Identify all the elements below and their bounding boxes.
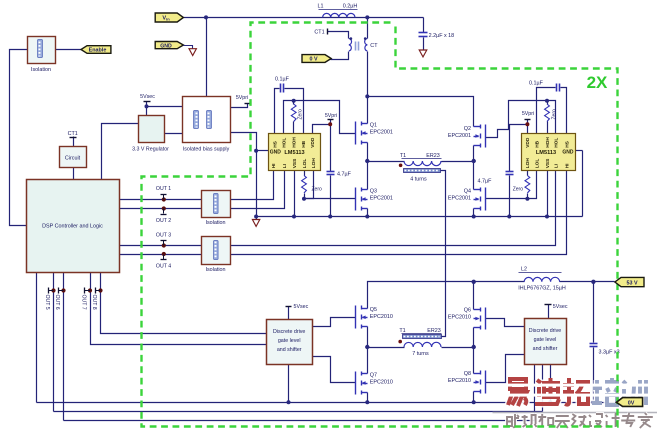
wire Q6 gate route <box>486 319 525 327</box>
svg-text:EPC2001: EPC2001 <box>370 196 393 202</box>
wire right HI to isolation3 bus <box>231 171 567 255</box>
svg-text:Isolated bias supply: Isolated bias supply <box>183 146 230 152</box>
wire shifter1 gnd pin <box>288 365 290 403</box>
wire bias supply top input <box>206 18 208 97</box>
wire Q5 source to T1 secondary <box>367 327 369 348</box>
svg-text:Q7: Q7 <box>370 373 377 379</box>
svg-text:Vin: Vin <box>162 16 170 22</box>
wire left VSS to bus <box>294 171 296 217</box>
svg-text:CT1: CT1 <box>68 131 78 137</box>
svg-text:Q4: Q4 <box>464 189 471 195</box>
svg-text:EPC2010: EPC2010 <box>448 378 471 384</box>
block DSP controller <box>27 180 120 273</box>
ground symbol at GND pointer <box>184 46 193 49</box>
wire 2.2uF cap stem <box>423 18 425 33</box>
wire left LI to isolation2 <box>231 171 285 209</box>
isolation block 3 <box>202 237 231 273</box>
resistor Zero left-bottom <box>302 176 322 194</box>
pointer GND <box>155 42 183 50</box>
ground under 2.2uF <box>419 50 427 57</box>
wire CT left winding to 0V <box>331 52 349 60</box>
svg-text:4.7µF: 4.7µF <box>337 172 352 178</box>
transistor Q3 <box>356 188 368 211</box>
svg-text:gate level: gate level <box>534 337 557 343</box>
svg-text:GND: GND <box>270 149 282 155</box>
watermark line <box>493 412 657 414</box>
pointer Vin <box>155 13 183 22</box>
wire DSP to 3.3V regulator <box>102 124 139 180</box>
terminal 5Vpri right chip <box>522 111 534 126</box>
node OUT4 <box>156 252 171 269</box>
transformer CT1 current transformer <box>349 39 367 52</box>
svg-text:GND: GND <box>562 149 574 155</box>
wire Q4 drain/source <box>473 162 475 190</box>
wire left HOL up <box>284 101 294 134</box>
watermark row2 vector glyphs <box>507 413 653 428</box>
capacitor 4.7uF right <box>478 172 514 185</box>
terminal 5Vsec shifter2 <box>545 304 568 310</box>
node OUT2 <box>156 206 171 223</box>
wire Q8 drain <box>473 348 475 374</box>
block discrete drive gate level shifter 1 <box>267 320 313 365</box>
wire T1 secondary line <box>368 347 405 349</box>
svg-text:LOL: LOL <box>302 159 308 169</box>
wire right LI to isolation3 bus <box>231 171 556 246</box>
inductor L1 <box>323 13 355 17</box>
svg-text:EPC2010: EPC2010 <box>370 380 393 386</box>
svg-text:OUT 3: OUT 3 <box>156 232 171 238</box>
node OUT8 <box>91 288 102 310</box>
capacitor 4.7uF left <box>327 172 352 178</box>
svg-text:VSS: VSS <box>292 158 298 168</box>
svg-text:Zero: Zero <box>552 109 558 120</box>
pointer Enable <box>81 46 111 54</box>
capacitor 0.1uF right <box>529 81 559 92</box>
svg-text:0.1µF: 0.1µF <box>275 77 290 83</box>
op-amp U2 gate driver LM5113 right <box>522 134 576 171</box>
svg-text:VSS: VSS <box>545 158 551 168</box>
wire right VDD to 5Vpri <box>527 125 529 134</box>
svg-text:Q5: Q5 <box>370 307 377 313</box>
wire left 0.1uF bootstrap HS-HB <box>275 89 280 134</box>
wire bias gnd output to chip GND <box>231 133 257 151</box>
svg-text:and shifter: and shifter <box>533 346 558 352</box>
wire 3.3uF branch <box>593 282 595 343</box>
terminal 5Vsec left <box>140 94 155 101</box>
wire OUT4 <box>120 254 202 256</box>
transformer T1 primary 4 turns ER23 <box>404 161 441 166</box>
svg-text:Isolation: Isolation <box>205 267 225 273</box>
svg-text:OUT 6: OUT 6 <box>54 295 60 310</box>
wire right HOL up <box>548 101 556 134</box>
svg-text:HI: HI <box>564 163 570 168</box>
svg-text:0V: 0V <box>628 401 635 407</box>
svg-text:VDD: VDD <box>310 137 316 148</box>
transistor Q6 <box>474 308 486 330</box>
green dashed boundary 2X region <box>142 23 618 427</box>
node OUT1 <box>156 186 171 202</box>
svg-text:Zero: Zero <box>298 109 304 120</box>
svg-text:OUT 1: OUT 1 <box>156 186 171 192</box>
svg-text:EPC2001: EPC2001 <box>370 130 393 136</box>
node OUT7 <box>81 288 92 310</box>
svg-text:EPC2010: EPC2010 <box>448 315 471 321</box>
capacitor 3.3uF x3 <box>590 344 620 356</box>
wire shifter2 5Vsec stem <box>548 305 550 319</box>
inductor L2 IHLP6767GZ <box>524 277 559 282</box>
svg-text:LM5113: LM5113 <box>284 150 304 156</box>
wire shifter1 5Vsec stem <box>288 307 290 320</box>
wire OUT5 down <box>53 273 55 412</box>
svg-text:4.7µF: 4.7µF <box>478 179 493 185</box>
svg-text:2X: 2X <box>587 73 608 92</box>
wire left LOL resistor stems <box>304 171 306 176</box>
svg-text:0.2µH: 0.2µH <box>343 4 358 10</box>
svg-text:5Vpri: 5Vpri <box>325 113 337 119</box>
svg-text:HOH: HOH <box>545 137 551 148</box>
wire DSP aux bottom pin to bus1 <box>36 273 38 403</box>
wire left HI to isolation2 <box>231 171 274 200</box>
wire bias 5Vpri output terminal <box>231 104 248 108</box>
wire right LOH resistor stems <box>527 171 529 176</box>
wire left VDD to 5Vpri <box>313 125 331 134</box>
svg-text:Q2: Q2 <box>464 126 471 132</box>
isolation block 1 <box>28 37 56 74</box>
svg-text:HOL: HOL <box>553 138 559 148</box>
wire Q8 source to bus1 <box>473 392 475 403</box>
wire T1 link winding down <box>441 171 446 337</box>
transistor Q2 <box>474 125 486 148</box>
svg-text:Isolation: Isolation <box>205 220 225 226</box>
svg-text:Discrete drive: Discrete drive <box>273 329 305 335</box>
svg-text:Discrete drive: Discrete drive <box>529 328 561 334</box>
svg-text:EPC2001: EPC2001 <box>448 133 471 139</box>
svg-text:Q6: Q6 <box>464 308 471 314</box>
block isolated bias supply <box>183 97 231 153</box>
wire bottom bus2 <box>54 411 543 413</box>
wire Vin rail <box>184 17 424 19</box>
wire left 5Vpri rail down with 4.7uF <box>330 125 332 172</box>
svg-text:Q3: Q3 <box>370 189 377 195</box>
svg-text:OUT 8: OUT 8 <box>91 295 97 310</box>
wire 3.3V reg to bias supply <box>165 133 183 135</box>
resistor Zero left-top <box>291 104 303 122</box>
svg-text:DSP Controller and Logic: DSP Controller and Logic <box>42 224 103 230</box>
wire right 0.1uF bootstrap HB-HS <box>537 88 556 134</box>
svg-text:3.3 V Regulator: 3.3 V Regulator <box>132 146 169 152</box>
terminal 5Vsec shifter1 <box>286 304 309 310</box>
wire left LOH join <box>305 171 314 199</box>
ground under bias GND rail <box>252 220 259 227</box>
transistor Q8 <box>474 371 486 394</box>
svg-text:4 turns: 4 turns <box>410 177 427 183</box>
transistor Q5 <box>356 306 368 329</box>
wire shifter1 out to Q7 gate <box>313 357 356 383</box>
wire left low gate drive to Q3 <box>305 198 356 200</box>
wire isolation1 to Enable <box>56 49 82 51</box>
svg-text:5Vsec: 5Vsec <box>140 94 155 100</box>
block discrete drive gate level shifter 2 <box>525 319 567 365</box>
wire Q1 drain from Vin <box>367 18 369 39</box>
transistor Q4 <box>474 188 486 211</box>
wire Q7 source to bus1 <box>367 393 369 403</box>
wire OUT2 <box>120 208 202 210</box>
op-amp U1 gate driver LM5113 left <box>269 134 321 171</box>
pointer 0V top <box>302 55 331 63</box>
svg-text:HI: HI <box>271 163 277 168</box>
svg-text:L1: L1 <box>318 4 324 10</box>
block CT1 circuit <box>60 131 87 168</box>
wire isolation1 left to DSP <box>10 50 28 226</box>
resistor Zero right-top <box>545 104 558 122</box>
svg-text:5Vpri: 5Vpri <box>236 95 248 101</box>
watermark row1 vector glyphs <box>508 378 646 406</box>
wire Q3 source to bus <box>367 209 369 217</box>
svg-text:0.1µF: 0.1µF <box>529 81 544 87</box>
svg-text:53 V: 53 V <box>626 280 637 286</box>
svg-text:Zero: Zero <box>513 187 524 193</box>
svg-text:LOH: LOH <box>525 158 531 169</box>
wire OUT3 <box>120 245 202 247</box>
wire OUT6 down <box>63 273 65 421</box>
wire Q6 drain up to L2 rail <box>473 282 475 310</box>
svg-text:Isolation: Isolation <box>31 67 51 73</box>
svg-text:Q8: Q8 <box>464 371 471 377</box>
wire shifter2 bottom pin to bus3 <box>534 365 536 421</box>
terminal 5Vpri bias output <box>236 95 252 104</box>
terminal 5Vpri left chip <box>325 113 337 126</box>
wire right low gate drive to Q4 <box>486 198 528 200</box>
svg-text:7 turns: 7 turns <box>412 351 429 357</box>
svg-text:and shifter: and shifter <box>277 347 302 353</box>
isolation block 2 <box>202 191 231 227</box>
svg-text:L2: L2 <box>521 267 527 273</box>
node OUT5 <box>44 288 55 310</box>
svg-text:5Vsec: 5Vsec <box>553 304 568 310</box>
svg-text:OUT 2: OUT 2 <box>156 218 171 224</box>
pointer 0V bottom <box>616 398 642 407</box>
wire 5Vsec node to bias supply <box>146 102 148 116</box>
svg-text:VDD: VDD <box>525 137 531 148</box>
wire Q2 source to node <box>473 146 475 162</box>
svg-text:HOH: HOH <box>292 137 298 148</box>
svg-text:EPC2010: EPC2010 <box>370 314 393 320</box>
wire shifter1 out to Q5 gate <box>313 318 356 327</box>
wire Q5 drain up to L2 rail <box>368 282 474 309</box>
capacitor 2.2uF x 18 <box>419 33 428 37</box>
wire left gate drive to Q1 <box>294 101 356 134</box>
svg-text:gate level: gate level <box>278 338 301 344</box>
wire right LOL join <box>528 171 537 199</box>
wire CT1 terminal to left winding <box>328 32 349 39</box>
node OUT6 <box>54 288 65 310</box>
wire T1 primary line <box>368 161 405 163</box>
wire shifter2 bottom pin to bus2 <box>542 365 544 412</box>
svg-text:HB: HB <box>301 140 307 147</box>
svg-text:HS: HS <box>564 140 570 147</box>
svg-text:HB: HB <box>534 140 540 147</box>
wire Q7 drain <box>367 348 369 374</box>
svg-text:CT: CT <box>370 43 378 49</box>
transformer T1 secondary 7 turns ER23 <box>399 328 440 334</box>
svg-text:OUT 7: OUT 7 <box>81 295 87 310</box>
wire OUT7 down to shifter <box>91 273 267 345</box>
wire OUT1 <box>120 199 202 201</box>
wire right HOH resistor stems <box>547 101 549 105</box>
svg-text:Circuit: Circuit <box>65 156 81 162</box>
wire circuit to DSP <box>73 168 75 180</box>
transistor Q7 <box>356 372 368 395</box>
svg-text:CT1: CT1 <box>314 29 324 35</box>
wire OUT8 down to shifter <box>101 273 267 334</box>
block 3.3V regulator <box>132 116 169 153</box>
svg-text:Zero: Zero <box>312 187 323 193</box>
node OUT3 <box>156 232 171 247</box>
svg-text:HS: HS <box>272 140 278 147</box>
svg-text:Q1: Q1 <box>370 123 377 129</box>
svg-text:EPC2001: EPC2001 <box>448 196 471 202</box>
svg-text:5Vsec: 5Vsec <box>294 304 309 310</box>
svg-text:0 V: 0 V <box>309 57 317 63</box>
watermark row1 white stripes <box>501 384 652 387</box>
wire shifter2 gnd pin to bus1 <box>550 365 552 403</box>
svg-text:IHLP6767GZ, 15µH: IHLP6767GZ, 15µH <box>518 285 566 291</box>
wire Q8 gate route <box>486 355 525 383</box>
transistor Q1 <box>356 122 368 145</box>
svg-text:Enable: Enable <box>89 48 107 54</box>
wire L2 rail to 53V <box>474 281 525 283</box>
svg-text:LOL: LOL <box>534 159 540 169</box>
svg-text:OUT 5: OUT 5 <box>44 295 50 310</box>
wire bottom bus3 <box>64 420 535 422</box>
svg-text:2.2µF x 18: 2.2µF x 18 <box>429 33 455 39</box>
wire right gate drive to Q2 <box>486 101 548 138</box>
wire right 5Vpri rail down with 4.7uF <box>510 125 528 172</box>
svg-text:OUT 4: OUT 4 <box>156 263 171 269</box>
svg-text:LI: LI <box>282 163 288 168</box>
wire Q2 drain feed <box>368 97 474 127</box>
svg-text:5Vpri: 5Vpri <box>522 111 534 117</box>
svg-text:LOH: LOH <box>311 158 317 169</box>
svg-text:GND: GND <box>160 43 172 49</box>
wire primary gnd bus <box>257 216 583 218</box>
resistor Zero right-bottom <box>513 176 530 194</box>
wire bottom bus1 0V <box>37 402 617 404</box>
pointer 53V <box>615 277 644 286</box>
capacitor 0.1uF left <box>275 77 290 93</box>
wire right VSS to bus <box>547 171 549 217</box>
wire CT1 circuit stem <box>73 137 75 147</box>
svg-text:HOL: HOL <box>281 138 287 148</box>
wire switch node A <box>367 143 369 190</box>
svg-text:LM5113: LM5113 <box>536 150 556 156</box>
svg-text:LI: LI <box>553 163 559 168</box>
wire left HOH resistor stems <box>293 101 295 105</box>
wire Q6 source down <box>473 328 475 348</box>
